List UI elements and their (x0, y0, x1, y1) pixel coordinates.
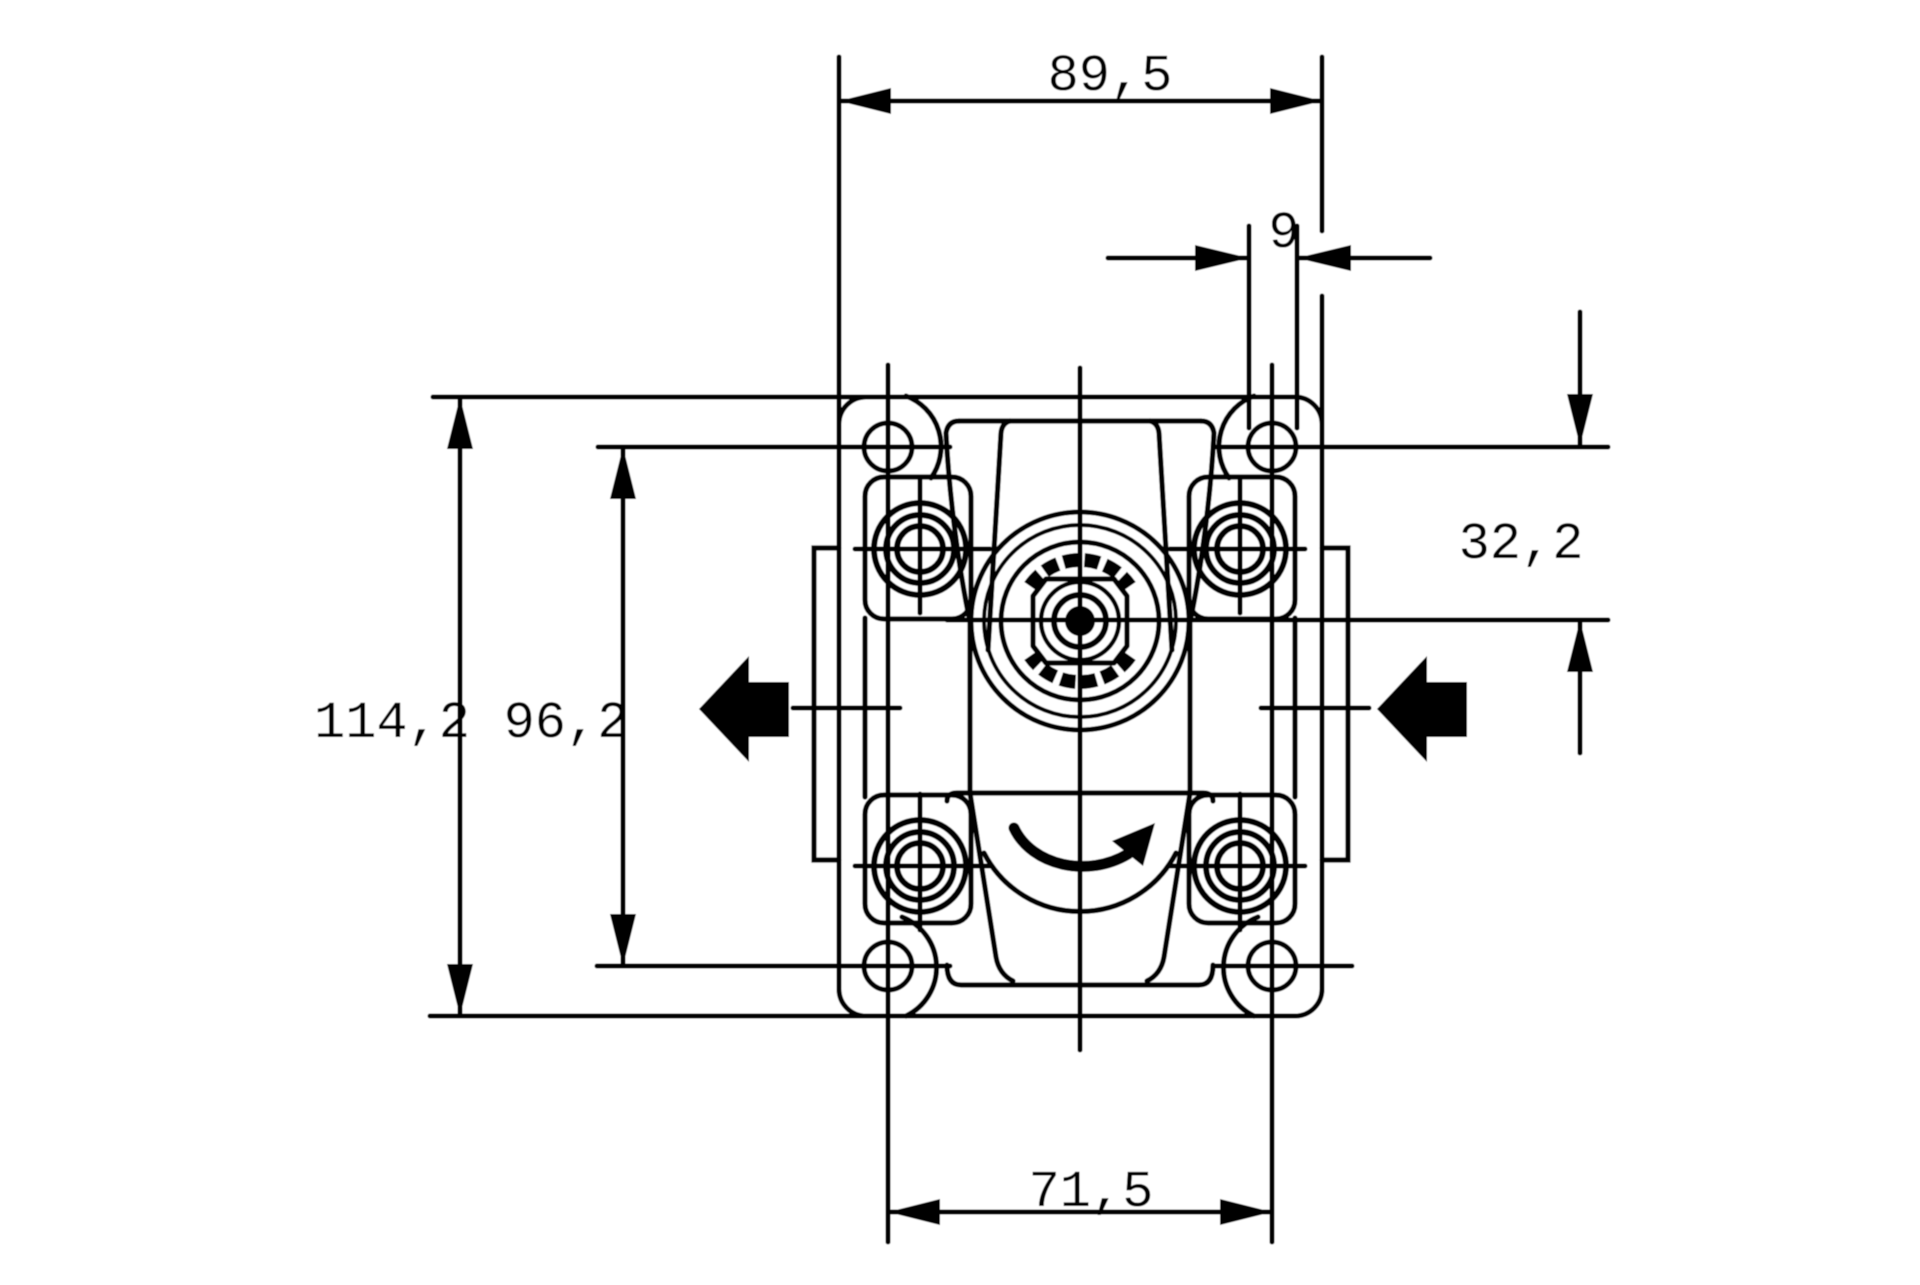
shaft hexagon (1033, 579, 1127, 663)
mounting boss bottom-left rings (874, 820, 966, 912)
vertical centerline (1078, 368, 1083, 1050)
right body side: finger edge, chamber wall, lower rib (1147, 421, 1214, 981)
lower gear bore arc (984, 853, 1176, 912)
corner bolt hole bottom-left (864, 942, 912, 990)
bottom holes horizontal centerline left (597, 964, 950, 969)
right casting connector (1292, 618, 1297, 797)
svg-text:96,2: 96,2 (504, 694, 629, 753)
flow arrow right (1377, 656, 1467, 762)
left casting connector (862, 618, 867, 797)
shaft center solid (1065, 606, 1095, 636)
relief arc around top-left hole (906, 396, 941, 478)
spline teeth top arc (1030, 560, 1130, 586)
rotation arrow head (1112, 823, 1155, 866)
relief arc around bottom-right hole (1223, 917, 1258, 1016)
top holes horizontal centerline left (598, 445, 950, 450)
corner bolt hole top-left (864, 423, 912, 471)
shaft inner circle (1054, 595, 1106, 647)
centerlines (597, 365, 1608, 1242)
dimension 9 (1108, 226, 1430, 428)
svg-text:71,5: 71,5 (1029, 1163, 1154, 1222)
top-left pocket inner edge (988, 421, 1010, 650)
relief arc around top-right hole (1219, 396, 1254, 478)
left port centerline (793, 706, 900, 711)
central bore circle outer (971, 512, 1189, 730)
right port centerline (1261, 706, 1369, 711)
shaft circle (1041, 582, 1119, 660)
boss ear bottom-right (1189, 795, 1295, 923)
bottom holes horizontal centerline right (1214, 964, 1352, 969)
flange plate outline (839, 397, 1322, 1016)
central bearing circle (1001, 542, 1159, 700)
boss TL crosshair (855, 477, 990, 613)
left body side: finger edge, chamber wall, lower rib (946, 421, 1013, 981)
mounting boss top-left rings (874, 503, 966, 595)
central bore circle middle (984, 525, 1176, 717)
boss ear top-right (1189, 477, 1295, 619)
dimension 114,2 (430, 397, 905, 1016)
dimension 71,5 (888, 1199, 1272, 1225)
top-right pocket inner edge (1150, 421, 1172, 650)
corner bolt hole top-right (1248, 423, 1296, 471)
flow arrow left (699, 656, 789, 762)
pump body top edge (959, 418, 1201, 423)
corner bolt hole bottom-right (1248, 942, 1296, 990)
rotation arrow arc (1014, 828, 1128, 866)
boss ear bottom-left (865, 795, 971, 923)
boss BR crosshair (1170, 794, 1305, 930)
dimension 96,2 (610, 447, 636, 966)
svg-text:114,2: 114,2 (314, 694, 470, 753)
horizontal centerline (947, 618, 1608, 623)
right side tab (1322, 548, 1348, 860)
gear chamber bottom line (947, 793, 1213, 801)
svg-text:9: 9 (1268, 204, 1299, 263)
svg-text:32,2: 32,2 (1459, 515, 1584, 574)
boss ear top-left (865, 477, 971, 619)
spline teeth bottom arc (1030, 656, 1130, 682)
top holes horizontal centerline right (1214, 445, 1608, 450)
left side tab (814, 548, 839, 860)
mounting boss top-right rings (1194, 503, 1286, 595)
right holes vertical centerline (1270, 365, 1275, 1242)
pump body bottom edge (947, 965, 1213, 985)
left holes vertical centerline (886, 365, 891, 1242)
mounting boss bottom-right rings (1194, 820, 1286, 912)
dimension 32,2 (1567, 312, 1593, 753)
relief arc around bottom-left hole (902, 917, 937, 1016)
svg-text:89,5: 89,5 (1048, 47, 1173, 106)
boss BL crosshair (855, 794, 990, 930)
boss TR crosshair (1170, 477, 1305, 613)
dimension 89,5 (839, 57, 1322, 432)
